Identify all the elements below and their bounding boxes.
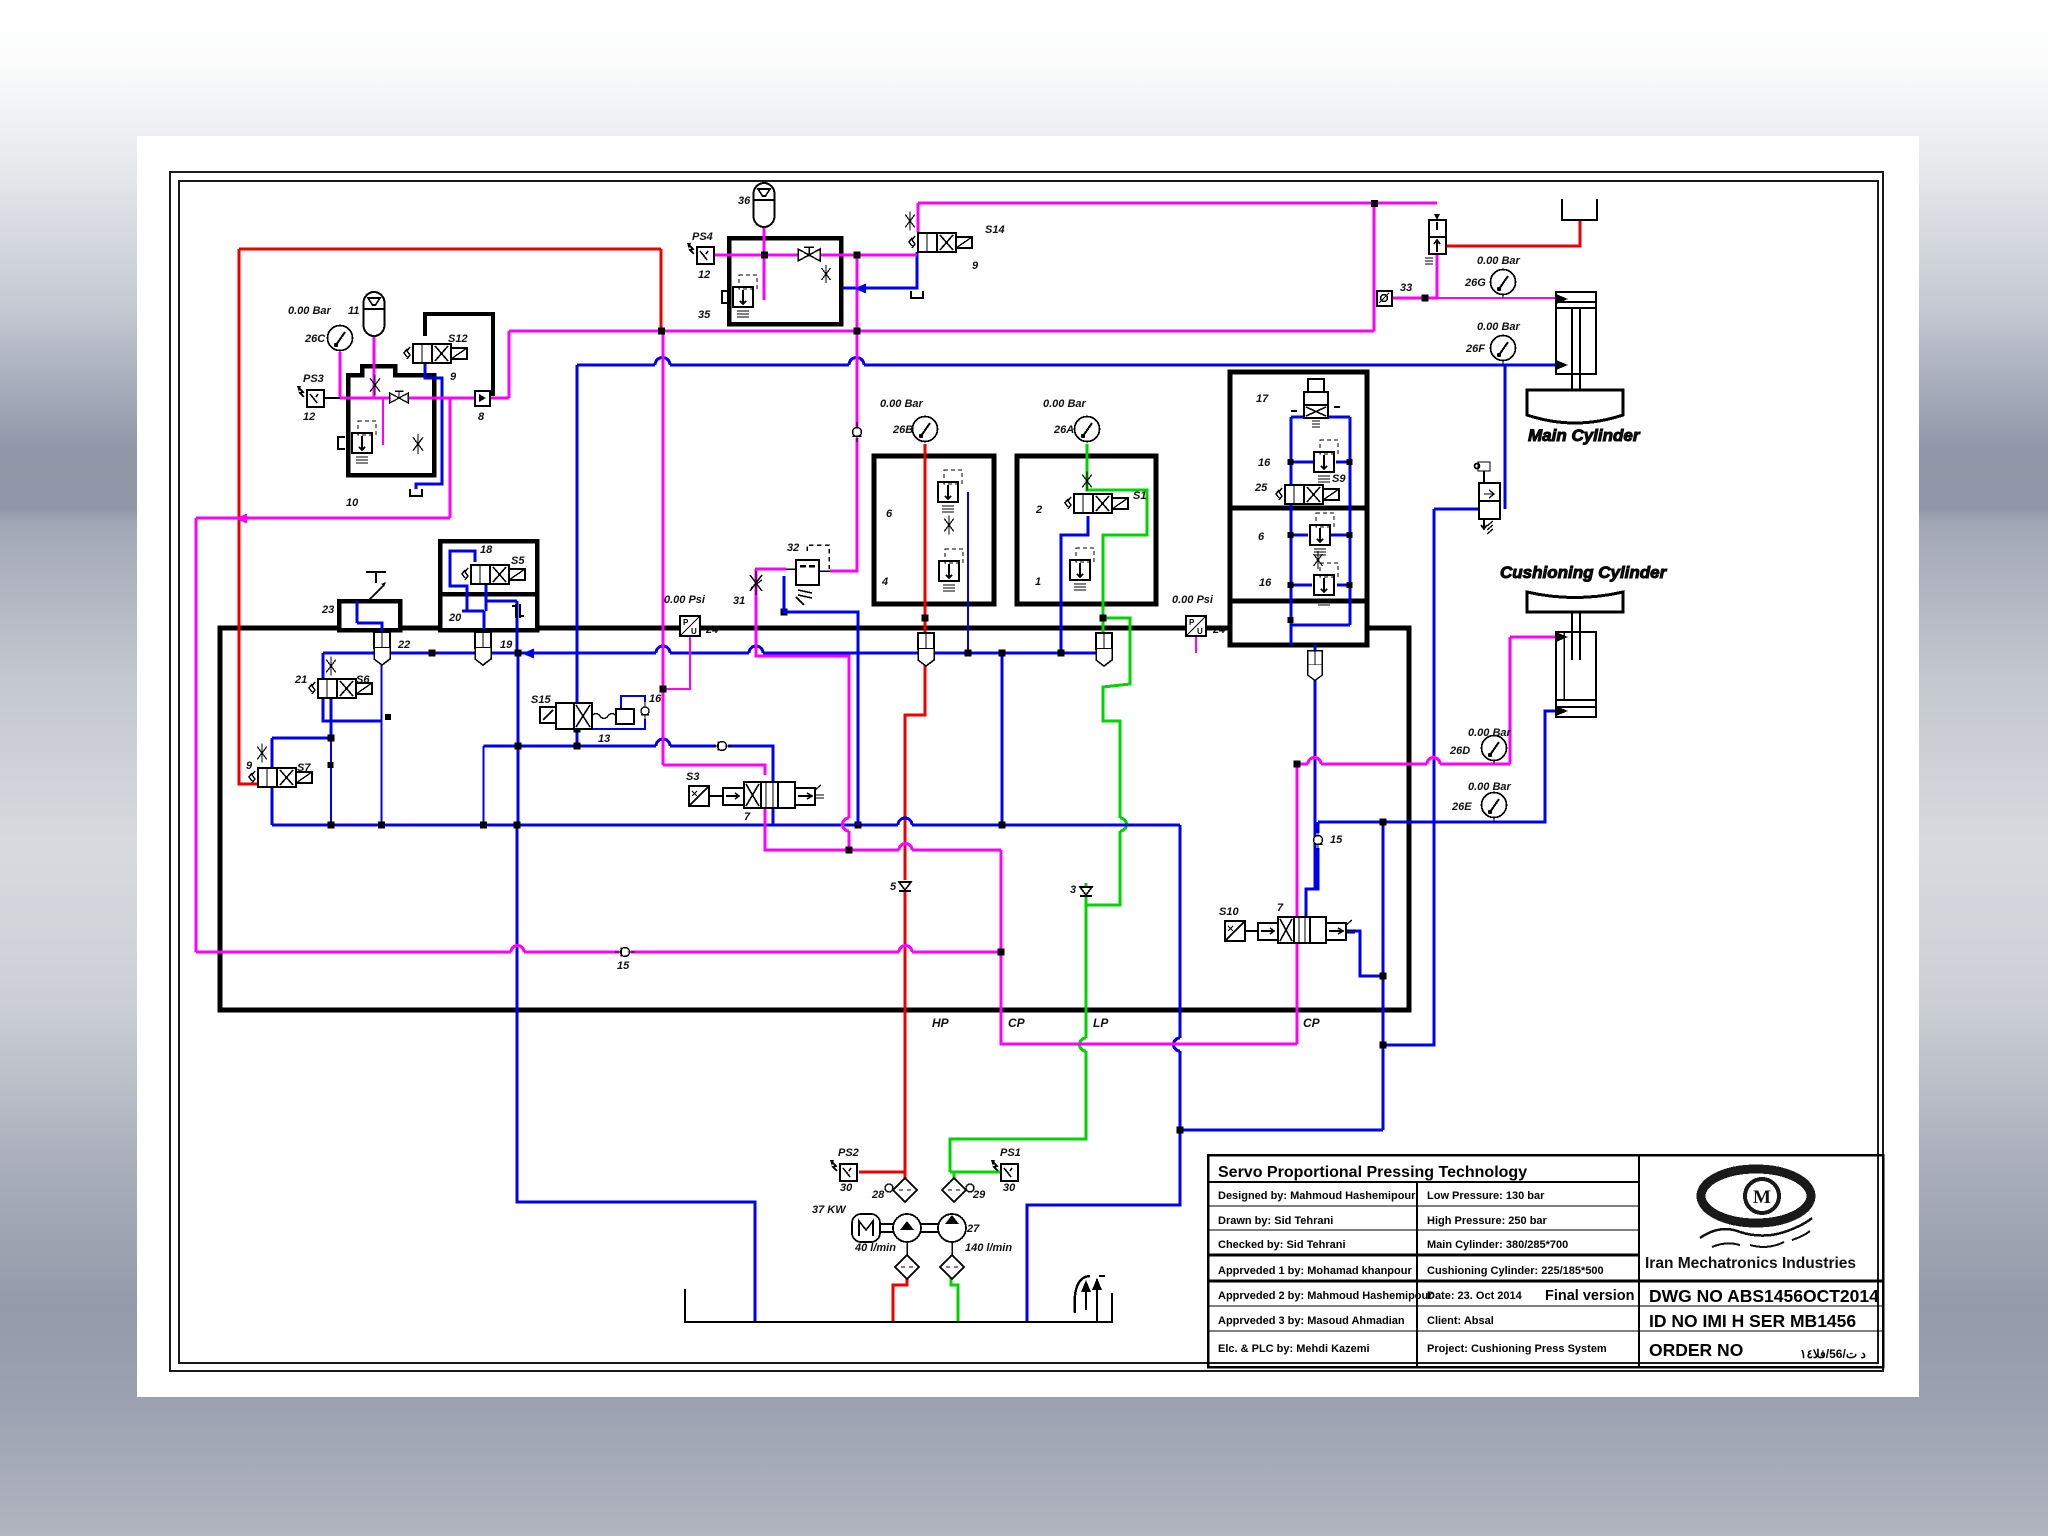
needle in block 10 top <box>370 375 380 395</box>
wire blue S6 drop <box>330 698 333 738</box>
wire magenta transducer drop x663 <box>662 331 665 765</box>
wire magenta S3 feed y850 <box>765 797 899 850</box>
wire magenta top line y203 <box>918 202 1437 205</box>
svg-text:26E: 26E <box>1451 801 1472 813</box>
svg-text:S6: S6 <box>356 674 370 686</box>
tank under block10 <box>410 489 422 496</box>
wire magenta cushion line y764 <box>1297 763 1308 766</box>
svg-text:19: 19 <box>500 639 513 651</box>
svg-text:0.00 Psi: 0.00 Psi <box>664 594 706 606</box>
wire magenta S3 top link <box>663 765 765 775</box>
svg-text:31: 31 <box>733 595 745 607</box>
svg-text:S9: S9 <box>1332 473 1346 485</box>
wire magenta riser x450 to PS3 line <box>449 398 452 518</box>
svg-text:Main Cylinder: Main Cylinder <box>1528 426 1641 445</box>
svg-text:0.00 Psi: 0.00 Psi <box>1172 594 1214 606</box>
svg-text:ORDER NO: ORDER NO <box>1649 1340 1743 1360</box>
throttle-check tall block <box>1314 551 1323 569</box>
relief 16 lower tall block <box>1314 563 1338 605</box>
valve S9 in tall block <box>1276 485 1339 504</box>
gauge 26C <box>328 326 353 351</box>
transducer 24 right <box>1186 616 1206 636</box>
S12 frame <box>425 314 493 396</box>
wire magenta gauge 26C drop <box>339 352 342 398</box>
Main Cylinder port arrows <box>1556 294 1568 304</box>
svg-text:0.00 Bar: 0.00 Bar <box>1043 398 1087 410</box>
title block frame <box>1208 1155 1883 1367</box>
wire green filter 29 link <box>953 1172 956 1178</box>
relief in block 10 <box>352 421 376 463</box>
flow control on block 23 <box>366 572 386 601</box>
svg-text:S15: S15 <box>531 694 551 706</box>
Main Cylinder platen <box>1527 390 1623 423</box>
flow arrow blue left S14 line <box>854 284 866 294</box>
valve S14 <box>909 233 972 252</box>
svg-text:S3: S3 <box>686 771 699 783</box>
svg-text:32: 32 <box>787 542 799 554</box>
PS1 pressure switch <box>991 1160 1018 1181</box>
svg-text:3: 3 <box>1070 884 1076 896</box>
svg-text:4: 4 <box>881 576 888 588</box>
wire magenta bus y331 <box>509 330 1374 333</box>
svg-text:24: 24 <box>705 624 718 636</box>
block 2/1 <box>1017 456 1156 604</box>
svg-text:24: 24 <box>1212 624 1225 636</box>
wire magenta accumulator 36 drop <box>763 227 766 300</box>
manifold block 10 (PS3 station) <box>348 366 434 475</box>
tall block divider 1 <box>1230 506 1367 511</box>
Main Cylinder body <box>1556 292 1596 374</box>
Cushioning Cylinder body <box>1556 632 1596 717</box>
svg-text:0.00 Bar: 0.00 Bar <box>1468 727 1512 739</box>
svg-text:PS3: PS3 <box>303 373 324 385</box>
wire magenta check33 to counterbalance <box>1392 255 1437 298</box>
svg-text:7: 7 <box>744 811 751 823</box>
transducer 24 left <box>680 616 700 636</box>
check on magenta x857 <box>853 422 862 442</box>
svg-text:S10: S10 <box>1219 906 1239 918</box>
svg-text:9: 9 <box>450 371 457 383</box>
block 18/20 <box>440 541 537 630</box>
wire magenta CP left bus y952 <box>196 951 511 954</box>
wire blue x1383 vertical <box>1382 822 1385 1130</box>
svg-text:1: 1 <box>1035 576 1041 588</box>
wire blue vertical x1002 <box>1001 653 1004 825</box>
wire blue thin from block 6/4 <box>967 492 969 653</box>
svg-text:17: 17 <box>1256 393 1269 405</box>
valve S12 <box>404 344 467 363</box>
svg-text:16: 16 <box>649 693 662 705</box>
svg-text:Apprveded 2 by: Mahmoud Hashe: Apprveded 2 by: Mahmoud Hashemipour <box>1218 1290 1433 1302</box>
block 23 <box>339 601 400 630</box>
svg-text:21: 21 <box>294 674 307 686</box>
gauge 26D <box>1482 736 1507 761</box>
wire blue x1180 drop <box>1179 825 1182 1038</box>
svg-text:S14: S14 <box>985 224 1005 236</box>
wire green branch right and down <box>1103 618 1130 818</box>
svg-text:HP: HP <box>932 1016 950 1030</box>
svg-text:Main Cylinder: 380/285*700: Main Cylinder: 380/285*700 <box>1427 1239 1568 1251</box>
svg-text:0.00 Bar: 0.00 Bar <box>880 398 924 410</box>
filter 29 <box>942 1178 966 1202</box>
accumulator 11 <box>364 292 385 336</box>
svg-text:7: 7 <box>1277 902 1284 914</box>
svg-text:26A: 26A <box>1053 424 1074 436</box>
wire magenta check33 drop <box>1373 203 1376 331</box>
manifold block A (PS4/36 station) <box>729 238 841 324</box>
ball valve block10 <box>390 391 409 403</box>
funnel valve 22 <box>374 632 390 665</box>
wire magenta S14 junction vertical x857 <box>856 255 859 427</box>
wire blue y746 bus <box>484 745 657 748</box>
suction filter 1 <box>895 1255 919 1279</box>
wire blue tall block drop to S10 <box>1314 645 1317 889</box>
wire red drop to magenta bus <box>660 249 663 331</box>
svg-text:13: 13 <box>598 733 610 745</box>
svg-text:27: 27 <box>966 1223 980 1235</box>
svg-text:Checked by: Sid Tehrani: Checked by: Sid Tehrani <box>1218 1239 1346 1251</box>
svg-text:37 KW: 37 KW <box>812 1204 847 1216</box>
wire magenta relief35 drop <box>763 255 765 300</box>
svg-text:2: 2 <box>1035 504 1042 516</box>
svg-text:S5: S5 <box>511 555 525 567</box>
PS4 pressure switch <box>687 243 714 264</box>
company logo <box>1645 1169 1856 1272</box>
svg-text:23: 23 <box>321 604 334 616</box>
svg-text:Designed by: Mahmoud Hashemipo: Designed by: Mahmoud Hashemipour <box>1218 1190 1416 1202</box>
wire green PS1 stub <box>950 1171 1001 1174</box>
wire blue main-cylinder bottom line <box>577 364 655 367</box>
wire blue S10 output joins <box>1346 931 1383 976</box>
wire blue x483 drop <box>482 746 484 825</box>
svg-text:S7: S7 <box>297 762 311 774</box>
svg-text:8: 8 <box>478 411 485 423</box>
check on blue y746 <box>712 742 732 751</box>
svg-text:6: 6 <box>886 508 893 520</box>
wire green below check 3 down to pump area <box>1085 883 1088 1038</box>
component 32 <box>796 560 819 585</box>
S15 proportional valve 13 <box>540 703 634 729</box>
svg-text:Elc. & PLC by: Mehdi Kazemi: Elc. & PLC by: Mehdi Kazemi <box>1218 1343 1370 1355</box>
throttle 31 <box>750 571 762 595</box>
svg-text:Date: 23. Oct 2014: Date: 23. Oct 2014 <box>1427 1290 1523 1302</box>
valve S5 <box>462 565 525 584</box>
wire blue S7 loop <box>272 737 331 740</box>
svg-text:Final version: Final version <box>1545 1288 1634 1304</box>
pump 2 <box>938 1214 966 1242</box>
check 15 right <box>1314 830 1323 850</box>
orifice plug block20 <box>512 604 524 618</box>
wire blue block23 link <box>356 601 359 623</box>
wire blue from S1 block 2/1 <box>1061 516 1088 653</box>
svg-text:36: 36 <box>738 195 751 207</box>
wire magenta inside block10 <box>382 398 384 445</box>
Cushioning rod <box>1571 612 1573 660</box>
wire blue check15 drop to S10 <box>1317 822 1320 833</box>
main manifold block outline <box>220 628 1409 1010</box>
wire blue bus y653 <box>323 652 656 655</box>
gauge 26E <box>1482 793 1507 818</box>
outer border frame <box>170 172 1883 1371</box>
gauge 26A <box>1075 417 1100 442</box>
wire green LP from gauge 26A through block 2/1 <box>1087 444 1147 618</box>
accumulator 36 <box>754 183 775 227</box>
valve S1 <box>1065 494 1128 513</box>
wire magenta left riser <box>195 518 198 952</box>
pilot operated valve right side <box>1475 462 1501 534</box>
wire blue left drain to tank <box>517 825 755 1322</box>
svg-text:PS4: PS4 <box>692 231 713 243</box>
svg-text:0.00 Bar: 0.00 Bar <box>1477 321 1521 333</box>
block 6/4 <box>874 456 994 604</box>
svg-text:26F: 26F <box>1465 343 1485 355</box>
relief 35 in block A <box>733 275 757 317</box>
svg-text:Drawn by: Sid Tehrani: Drawn by: Sid Tehrani <box>1218 1215 1333 1227</box>
wire blue valve13 loop <box>577 696 645 729</box>
wire magenta PS4-S14 line <box>714 254 917 257</box>
wire red pump1 suction drain <box>893 1278 907 1322</box>
wire green pump2 suction drain <box>951 1278 958 1322</box>
wire red top horizontal <box>239 248 661 251</box>
check 3 <box>1080 887 1092 896</box>
relief 16 upper tall block <box>1314 440 1338 482</box>
Main Cylinder rod <box>1571 308 1573 390</box>
flow arrow magenta left <box>235 514 247 524</box>
tank line bottom <box>685 1289 1112 1322</box>
wire magenta CP riser x1297 <box>1296 764 1299 1044</box>
wire red top-right to tank <box>1447 221 1580 246</box>
wire magenta comp32 left leg down <box>755 568 786 571</box>
S3 valve assembly <box>689 782 824 808</box>
wire magenta accumulator 11 drop <box>373 337 376 398</box>
svg-text:S12: S12 <box>448 333 468 345</box>
relief in block 2/1 <box>1070 548 1094 590</box>
flow arrow blue left bus1 <box>522 649 534 659</box>
needle in block10 right <box>413 434 423 454</box>
block 18/20 divider <box>440 592 537 597</box>
svg-text:16: 16 <box>1258 457 1271 469</box>
wire red into filter 28 <box>904 1172 907 1178</box>
svg-text:0.00 Bar: 0.00 Bar <box>1477 255 1521 267</box>
svg-text:29: 29 <box>972 1189 986 1201</box>
wire blue S12 drain <box>416 362 442 489</box>
svg-text:18: 18 <box>480 544 493 556</box>
wire magenta left top y518 <box>196 517 450 520</box>
relief 6 tall block <box>1310 513 1334 555</box>
wire red HP from gauge 26B through block 6/4 <box>924 444 927 663</box>
relief valves in block 6/4 <box>938 470 962 512</box>
wire red PS2 stub <box>859 1171 905 1174</box>
gauge 26G <box>1491 270 1516 295</box>
svg-text:33: 33 <box>1400 282 1412 294</box>
svg-text:0.00 Bar: 0.00 Bar <box>288 305 332 317</box>
wire blue 19 funnel link <box>482 653 485 665</box>
svg-text:25: 25 <box>1254 482 1268 494</box>
svg-text:26D: 26D <box>1449 745 1470 757</box>
tall right block 17/16/25/6/16 <box>1230 372 1367 645</box>
svg-text:Client: Absal: Client: Absal <box>1427 1315 1494 1327</box>
svg-text:15: 15 <box>1330 834 1343 846</box>
ball valve in block A <box>798 247 820 261</box>
svg-text:16: 16 <box>1259 577 1272 589</box>
filter 28 <box>893 1178 917 1202</box>
wire blue drop to pilot valve right port <box>1504 365 1507 509</box>
check 15 on CP bus <box>615 948 635 957</box>
svg-text:9: 9 <box>972 260 979 272</box>
svg-text:12: 12 <box>303 411 315 423</box>
S10 valve assembly <box>1225 917 1355 943</box>
svg-text:15: 15 <box>617 960 630 972</box>
svg-text:DWG NO ABS1456OCT2014: DWG NO ABS1456OCT2014 <box>1649 1286 1879 1306</box>
wire red HP main drop to pump <box>905 663 925 880</box>
wire blue pilot valve left port <box>1434 508 1480 511</box>
svg-text:12: 12 <box>698 269 710 281</box>
component 8 <box>475 391 490 406</box>
funnel valve under block 6/4 <box>918 633 934 666</box>
svg-text:Cushioning Cylinder: Cushioning Cylinder <box>1500 563 1668 582</box>
svg-text:35: 35 <box>698 309 711 321</box>
breather <box>1075 1276 1105 1322</box>
motor M <box>852 1214 880 1242</box>
wire blue y1130 branch <box>1180 1129 1383 1132</box>
wire blue block18 inner <box>450 551 517 653</box>
counterbalance valve top right <box>1425 214 1446 264</box>
check valve 33 <box>1377 291 1392 306</box>
pump shafts <box>880 1224 938 1232</box>
svg-text:Servo Proportional Pressing Te: Servo Proportional Pressing Technology <box>1218 1164 1527 1181</box>
svg-text:Low Pressure: 130 bar: Low Pressure: 130 bar <box>1427 1190 1545 1202</box>
Cushioning platen <box>1527 592 1623 612</box>
wire blue bus y825 <box>272 824 898 827</box>
tank under S14 <box>911 291 923 298</box>
wire magenta riser x509 <box>508 331 511 398</box>
svg-text:22: 22 <box>397 639 410 651</box>
node dots <box>658 328 665 335</box>
svg-text:د ت/56/فلا١٤: د ت/56/فلا١٤ <box>1800 1347 1866 1361</box>
wire green through funnel valve under block <box>1102 618 1105 633</box>
svg-text:140 l/min: 140 l/min <box>965 1242 1012 1254</box>
svg-text:9: 9 <box>246 760 253 772</box>
funnel valve under block 2/1 <box>1096 633 1112 666</box>
wire blue cushion bottom return <box>1318 711 1556 822</box>
svg-text:Apprveded 1 by: Mohamad khanp: Apprveded 1 by: Mohamad khanpour <box>1218 1265 1412 1277</box>
tank symbol top right <box>1562 199 1597 220</box>
wire magenta PS3 line to comp 8 <box>340 397 391 400</box>
wire blue S14 to manifold A <box>843 252 917 288</box>
pump 1 <box>893 1214 921 1242</box>
svg-text:ID NO IMI H SER MB1456: ID NO IMI H SER MB1456 <box>1649 1311 1856 1331</box>
wire magenta CP vertical x1001 <box>1001 850 1297 1044</box>
svg-text:PS1: PS1 <box>1000 1147 1021 1159</box>
PS2 pressure switch <box>830 1160 857 1181</box>
wire magenta cushion port drop <box>1509 637 1512 764</box>
svg-text:High Pressure: 250 bar: High Pressure: 250 bar <box>1427 1215 1548 1227</box>
svg-text:6: 6 <box>1258 531 1265 543</box>
wire blue S15 riser <box>576 365 579 703</box>
wire blue tall block inner loop <box>1291 417 1350 645</box>
gauge 26B <box>913 417 938 442</box>
svg-text:S1: S1 <box>1133 490 1146 502</box>
svg-text:Project: Cushioning Press Syst: Project: Cushioning Press System <box>1427 1343 1607 1355</box>
svg-text:Cushioning Cylinder: 225/185*5: Cushioning Cylinder: 225/185*500 <box>1427 1265 1604 1277</box>
check 5 <box>899 882 911 891</box>
svg-text:30: 30 <box>840 1182 853 1194</box>
prop valve 17 in tall block <box>1291 379 1340 427</box>
page sheet <box>137 136 1919 1397</box>
suction filter 2 <box>940 1255 964 1279</box>
svg-text:30: 30 <box>1003 1182 1016 1194</box>
funnel valve 19 <box>475 632 491 665</box>
gauge 26F <box>1491 336 1516 361</box>
svg-text:26C: 26C <box>304 333 326 345</box>
wire blue funnel22 drain x381 <box>380 657 382 825</box>
svg-text:26B: 26B <box>892 424 913 436</box>
svg-text:10: 10 <box>346 497 359 509</box>
title block column dividers <box>1416 1182 1418 1367</box>
inner border frame <box>179 181 1878 1363</box>
wire blue vertical x518 <box>517 653 520 825</box>
svg-text:Apprveded 3 by: Masoud Ahmadia: Apprveded 3 by: Masoud Ahmadian <box>1218 1315 1405 1327</box>
svg-text:M: M <box>1753 1187 1771 1208</box>
funnel valve under tall block <box>1308 651 1322 681</box>
svg-text:0.00 Bar: 0.00 Bar <box>1468 781 1512 793</box>
title block row lines <box>1208 1181 1639 1183</box>
svg-text:11: 11 <box>348 305 359 317</box>
tall block divider 2 <box>1230 599 1367 604</box>
svg-text:LP: LP <box>1093 1016 1109 1030</box>
PS3 pressure switch <box>297 386 324 407</box>
wire blue corner to y721 <box>323 653 381 721</box>
svg-text:28: 28 <box>871 1189 885 1201</box>
valve S7 <box>249 768 312 787</box>
wire magenta transducer 24 left link <box>663 636 690 689</box>
svg-text:26G: 26G <box>1464 277 1486 289</box>
svg-text:40 l/min: 40 l/min <box>854 1242 896 1254</box>
wire magenta S14 riser <box>917 203 920 232</box>
svg-text:5: 5 <box>890 881 897 893</box>
valve S6 <box>309 679 372 698</box>
wire magenta gauge line to main cyl top port <box>1425 297 1556 299</box>
svg-text:Iran Mechatronics Industries: Iran Mechatronics Industries <box>1645 1255 1856 1272</box>
wire magenta transducer 24 right <box>1195 636 1197 653</box>
svg-text:PS2: PS2 <box>838 1147 859 1159</box>
svg-text:CP: CP <box>1008 1016 1026 1030</box>
wire blue pilot-valve drain x1434 <box>1383 509 1434 1045</box>
wire red left vertical to S7 <box>239 249 258 784</box>
svg-text:CP: CP <box>1303 1016 1321 1030</box>
svg-text:20: 20 <box>448 612 462 624</box>
